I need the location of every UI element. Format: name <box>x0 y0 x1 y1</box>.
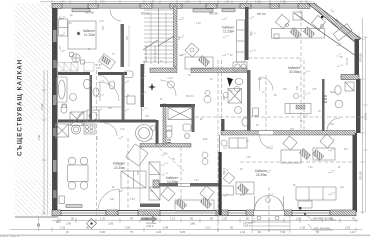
svg-text:30.36м²: 30.36м² <box>289 70 300 74</box>
diagonal dimension ticks top-right <box>313 1 361 38</box>
svg-text:1.60: 1.60 <box>37 134 41 140</box>
svg-text:1.10: 1.10 <box>255 2 260 4</box>
svg-text:5.25: 5.25 <box>180 230 186 234</box>
bottom dimension lines <box>10 219 362 232</box>
micro dimension text noise <box>60 15 349 201</box>
furniture room top-right: workstations <box>272 12 352 41</box>
svg-text:настилка тротоар: настилка тротоар <box>313 217 333 220</box>
top dimension line <box>40 0 312 4</box>
stair cut zigzag <box>143 36 174 50</box>
stair wall <box>174 6 178 67</box>
svg-text:1.35: 1.35 <box>100 217 106 221</box>
thin diagonal section line top-right <box>294 13 356 56</box>
svg-text:+1,10: +1,10 <box>167 78 174 80</box>
svg-text:3,36 м: 3,36 м <box>243 224 251 228</box>
keyboard hatch room TL <box>101 56 110 65</box>
svg-text:1.40: 1.40 <box>99 21 104 23</box>
staircase <box>144 8 174 64</box>
label СЪЩЕСТВУВАЩ КАЛКАН <box>17 59 24 156</box>
svg-text:1.30: 1.30 <box>300 226 306 230</box>
door arc room TL top-right <box>110 10 121 22</box>
top dimension micro texts <box>60 2 335 14</box>
svg-text:781,90: 781,90 <box>359 171 363 180</box>
stair step numbers <box>143 45 157 74</box>
svg-text:1.62: 1.62 <box>130 199 135 201</box>
callout lines bottom-right <box>304 213 336 230</box>
svg-text:2.05: 2.05 <box>345 226 351 230</box>
black door marker diamond <box>227 78 233 87</box>
wall under stairs / mid <box>150 68 177 73</box>
keyboard hatches bottom-right <box>237 148 323 194</box>
furniture kitchen-living room <box>56 124 161 204</box>
right dimension line <box>361 18 365 214</box>
radiator bottom wall left <box>66 205 82 208</box>
svg-text:1.45: 1.45 <box>163 226 169 230</box>
svg-text:2.05: 2.05 <box>125 226 131 230</box>
svg-text:1.10: 1.10 <box>170 217 176 221</box>
svg-text:2.02: 2.02 <box>100 2 105 4</box>
circled fixture numbers <box>151 81 299 165</box>
svg-text:2.80: 2.80 <box>190 222 196 226</box>
door head labels ПП 90 <box>85 11 266 17</box>
svg-text:2.10: 2.10 <box>196 23 201 25</box>
kalkan bottom edge line <box>15 217 58 231</box>
entrance swing circles <box>257 198 279 220</box>
svg-text:1.15: 1.15 <box>205 226 211 230</box>
svg-text:1.45: 1.45 <box>280 2 285 4</box>
towel radiator bath E <box>323 96 327 102</box>
annotation tick noise <box>60 17 344 197</box>
bathroom B fixtures <box>70 71 135 126</box>
room label Кабинет 26.39 <box>255 169 268 177</box>
svg-text:1.35: 1.35 <box>308 167 313 169</box>
shelf grid in room TL bottom <box>57 63 94 72</box>
bathroom A fixtures <box>57 77 91 113</box>
wc walls <box>163 104 166 144</box>
top-right diagonal exterior wall <box>308 4 361 43</box>
furniture room top-middle <box>185 20 245 69</box>
towel radiator bath C <box>167 140 171 143</box>
svg-text:1.10: 1.10 <box>233 72 238 74</box>
svg-text:1.20: 1.20 <box>222 217 228 221</box>
svg-text:ПП 90: ПП 90 <box>141 12 150 16</box>
keyboard hatches room top-right <box>290 27 315 39</box>
bottom-middle office walls <box>153 183 221 187</box>
room label Кабинет 30.36 <box>288 66 301 74</box>
top exterior wall <box>52 4 310 9</box>
bath B divider + door arc <box>78 107 121 120</box>
svg-text:1.102: 1.102 <box>40 103 44 110</box>
right exterior wall <box>341 39 361 212</box>
room label Кабинет 11.32 <box>83 29 96 37</box>
interior walls <box>58 6 355 215</box>
existing party-wall hatch band (калкан) <box>15 3 51 216</box>
svg-text:1.45: 1.45 <box>67 23 72 25</box>
svg-text:2.10: 2.10 <box>296 217 302 221</box>
svg-text:11.32м²: 11.32м² <box>84 33 95 37</box>
door arc mid wall <box>260 135 274 149</box>
rotated diamond at bottom-left entrance <box>87 219 97 229</box>
svg-text:1.55: 1.55 <box>312 89 317 91</box>
room label Кабинет 22.40 <box>113 162 126 171</box>
svg-text:781,90: 781,90 <box>347 57 349 65</box>
svg-text:1.20: 1.20 <box>194 180 199 182</box>
left dimension line <box>42 70 48 215</box>
bathroom right wall <box>322 79 325 131</box>
dashed axis lines <box>97 10 361 232</box>
entrance block arrow <box>141 216 158 223</box>
svg-text:16 17 18 19 20: 16 17 18 19 20 <box>154 45 157 62</box>
svg-text:Ф15: Ф15 <box>203 138 208 141</box>
svg-text:ПР 80: ПР 80 <box>95 65 102 67</box>
svg-text:26.39м²: 26.39м² <box>256 173 267 177</box>
svg-text:3,36 м: 3,36 м <box>146 224 154 228</box>
bottom scan edge band <box>0 235 370 237</box>
wc C fixtures <box>166 124 191 139</box>
long mid wall <box>221 131 355 136</box>
right dimension text <box>359 53 368 180</box>
svg-text:ПП 90: ПП 90 <box>257 12 266 16</box>
svg-text:10.45м²: 10.45м² <box>167 180 178 184</box>
svg-text:2.26: 2.26 <box>156 230 162 234</box>
circled symbols pair upper <box>204 91 211 104</box>
svg-text:22.40м²: 22.40м² <box>114 166 125 170</box>
left exterior wall <box>52 4 58 214</box>
furniture room top-left: desk <box>59 19 130 69</box>
room label Кабинет 10.45 <box>166 176 179 184</box>
svg-text:ПП 90: ПП 90 <box>85 11 94 15</box>
furniture bottom-right office <box>222 134 337 208</box>
four-point star symbol <box>148 83 156 91</box>
bottom-left tiny annotation <box>0 234 20 238</box>
svg-text:1.02: 1.02 <box>240 230 246 234</box>
kitchenette counter room TM <box>233 62 247 71</box>
room label Кабинет 11.23 <box>222 26 235 34</box>
svg-text:2.00: 2.00 <box>96 68 101 70</box>
svg-text:1.25: 1.25 <box>60 226 66 230</box>
cabinet office BR top <box>229 138 247 148</box>
large circle table <box>136 125 153 142</box>
keyboard hatches room top-middle <box>198 55 210 66</box>
callout texts bottom-right <box>313 217 333 230</box>
corridor door arc big <box>100 82 119 101</box>
svg-text:2.26: 2.26 <box>246 157 251 159</box>
wall under top-left room <box>58 72 90 75</box>
svg-text:1.16: 1.16 <box>350 230 356 234</box>
med couch pillow hatch <box>296 105 305 109</box>
furniture bottom-middle office <box>161 186 214 211</box>
svg-text:1.35: 1.35 <box>225 2 230 4</box>
terrace door arc bottom-left <box>98 189 120 211</box>
svg-text:1.30: 1.30 <box>60 2 65 4</box>
svg-text:ПП 90: ПП 90 <box>209 12 218 16</box>
left dimension texts <box>37 103 44 140</box>
bathroom wall <box>90 75 93 120</box>
svg-text:7.90: 7.90 <box>280 230 286 234</box>
svg-text:1.26: 1.26 <box>120 129 125 131</box>
bathroom D fixtures <box>228 79 259 127</box>
svg-text:90/2.10: 90/2.10 <box>186 96 194 98</box>
bottom exterior wall <box>52 210 356 216</box>
svg-text:1.55: 1.55 <box>150 2 155 4</box>
entrance black dot <box>299 207 301 209</box>
keyboard hatches bottom-middle <box>175 197 211 209</box>
entrance double door arcs <box>255 196 284 211</box>
svg-text:3.05: 3.05 <box>108 222 114 226</box>
wall between top rooms <box>121 24 125 67</box>
door arc kitchen <box>104 123 117 136</box>
svg-text:11.23м²: 11.23м² <box>223 30 234 34</box>
radiator under top window 3 <box>222 9 235 12</box>
door arc room 30.36 <box>260 77 274 91</box>
med couch room 30.36 <box>285 104 311 114</box>
extra tick rows bottom <box>60 218 340 223</box>
wall right of top-middle room <box>245 7 249 60</box>
radiator under top window 1 <box>72 9 90 12</box>
bottom dimension texts <box>56 217 356 235</box>
svg-text:ВБ.76.30.33: ВБ.76.30.33 <box>143 60 146 74</box>
kitchen top wall <box>58 120 156 123</box>
svg-text:СЪЩЕСТВУВАЩ КАЛКАН: СЪЩЕСТВУВАЩ КАЛКАН <box>17 59 24 156</box>
shower cabin with cross <box>168 108 192 120</box>
extra corridor arcs <box>98 75 176 96</box>
right outer dimension line <box>364 37 368 212</box>
svg-text:8.40: 8.40 <box>100 230 106 234</box>
svg-text:2.90: 2.90 <box>66 222 72 226</box>
bathroom E fixtures <box>327 82 354 131</box>
svg-text:1.90: 1.90 <box>185 2 190 4</box>
svg-text:Кабинет: Кабинет <box>113 162 126 166</box>
radiator under top window 2 <box>193 9 213 12</box>
entrance porch steps <box>252 215 290 233</box>
svg-text:баня: баня <box>330 92 336 94</box>
svg-text:783,90: 783,90 <box>359 53 363 62</box>
svg-text:асф. настилка: асф. настилка <box>314 227 331 230</box>
